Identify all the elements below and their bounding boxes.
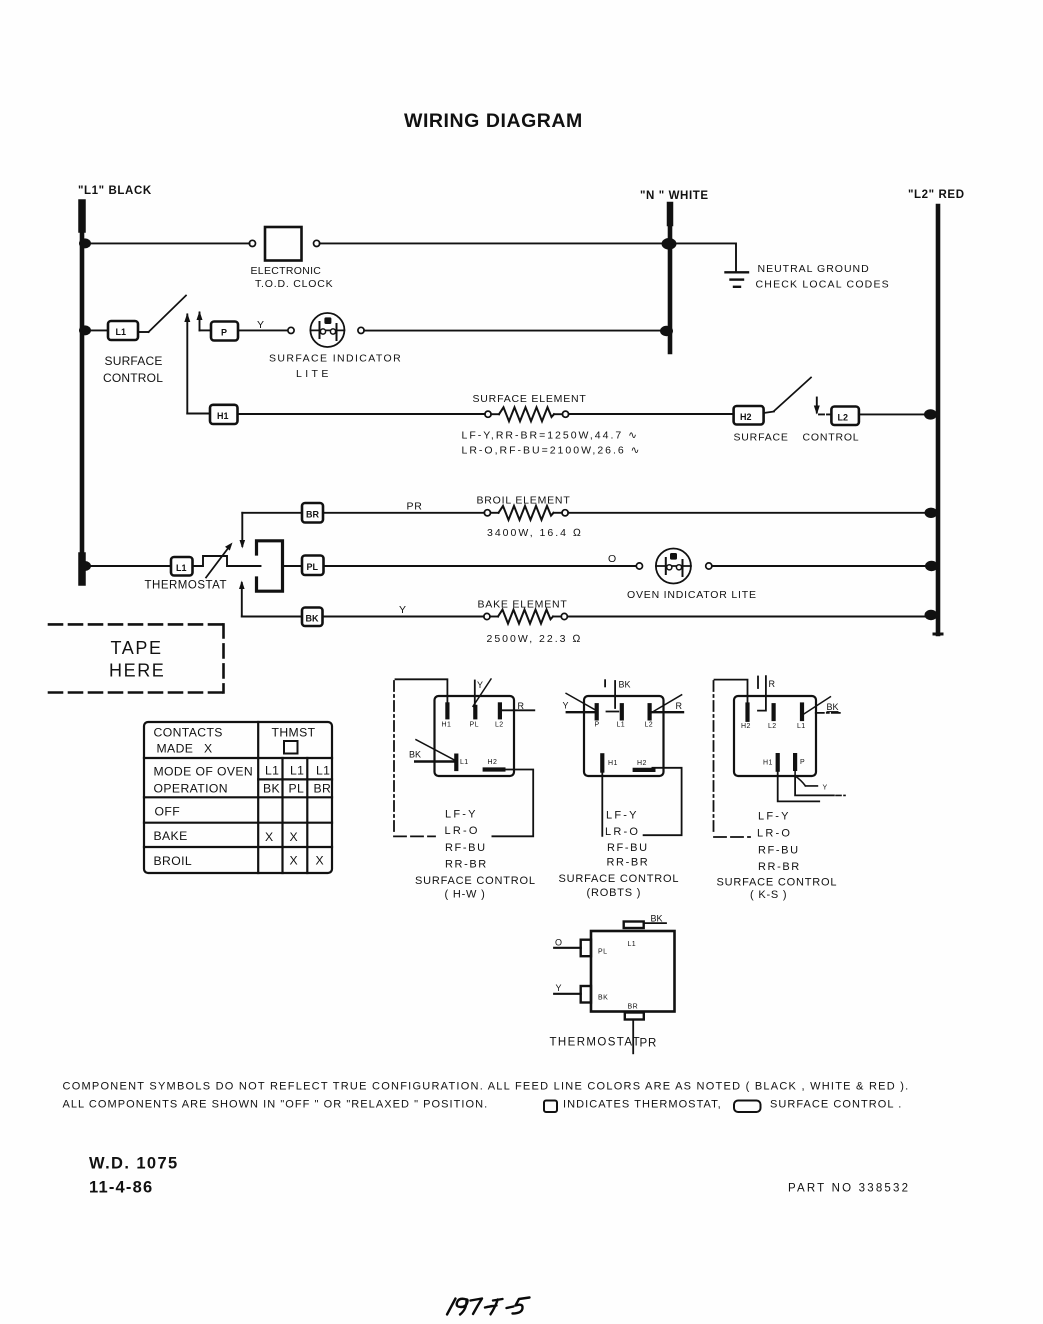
svg-text:THERMOSTAT: THERMOSTAT bbox=[550, 1037, 642, 1049]
junction on L1 bus (clock row) bbox=[79, 238, 91, 248]
table THMST checkbox bbox=[284, 741, 298, 754]
svg-text:LR-O: LR-O bbox=[605, 826, 640, 838]
svg-text:RR-BR: RR-BR bbox=[445, 858, 488, 870]
surface control contact box L1 bbox=[108, 321, 138, 340]
wire PR down from BR pin bbox=[632, 1021, 634, 1054]
wire: P box to lamp bbox=[238, 329, 288, 331]
svg-text:PR: PR bbox=[640, 1038, 658, 1050]
svg-text:THERMOSTAT: THERMOSTAT bbox=[145, 580, 228, 592]
wire BK to L1 pin bbox=[415, 760, 454, 762]
svg-text:R: R bbox=[676, 701, 683, 711]
svg-text:X: X bbox=[316, 854, 325, 868]
wire: broil element to L2 bus bbox=[568, 512, 936, 514]
junction on N bus (clock row) bbox=[662, 238, 677, 250]
bus L2 (red feed) bbox=[934, 206, 942, 634]
svg-text:SURFACE ELEMENT: SURFACE ELEMENT bbox=[473, 393, 587, 405]
wire: H1 box to surface element bbox=[238, 413, 485, 415]
svg-text:P: P bbox=[221, 328, 227, 338]
svg-text:OFF: OFF bbox=[155, 805, 181, 819]
svg-text:MADE: MADE bbox=[157, 742, 194, 756]
svg-text:Y: Y bbox=[563, 701, 569, 711]
contact box BK bbox=[302, 608, 323, 627]
svg-text:H1: H1 bbox=[763, 760, 773, 767]
svg-text:( K-S ): ( K-S ) bbox=[750, 889, 787, 901]
surface control package (H-W) bbox=[394, 679, 536, 901]
svg-text:CONTROL: CONTROL bbox=[803, 432, 860, 444]
svg-text:L1: L1 bbox=[316, 764, 330, 778]
junction on L2 bus (H2 row) bbox=[924, 409, 937, 419]
svg-text:SURFACE CONTROL: SURFACE CONTROL bbox=[559, 873, 680, 885]
svg-text:RF-BU: RF-BU bbox=[445, 842, 487, 854]
svg-text:CONTROL: CONTROL bbox=[103, 371, 163, 385]
svg-text:SURFACE CONTROL: SURFACE CONTROL bbox=[717, 876, 838, 888]
svg-text:"L1" BLACK: "L1" BLACK bbox=[78, 185, 152, 197]
svg-text:LR-O: LR-O bbox=[445, 825, 480, 837]
pin P (ROBTS) bbox=[595, 705, 599, 718]
wire stub and label BK (top) bbox=[644, 922, 666, 924]
package K-S body bbox=[734, 696, 816, 776]
svg-text:SURFACE: SURFACE bbox=[105, 354, 163, 368]
handwritten 197-F-5 bbox=[447, 1298, 530, 1315]
svg-text:RR-BR: RR-BR bbox=[758, 861, 801, 873]
svg-text:TAPE: TAPE bbox=[111, 638, 163, 658]
svg-text:L1: L1 bbox=[176, 563, 187, 573]
thermostat left pin PL bbox=[581, 940, 591, 957]
svg-text:PL: PL bbox=[470, 722, 479, 729]
svg-text:LITE: LITE bbox=[296, 368, 332, 380]
svg-text:O: O bbox=[555, 938, 562, 948]
svg-text:RR-BR: RR-BR bbox=[607, 856, 650, 868]
pin H2 (K-S) bbox=[745, 705, 749, 720]
svg-text:ALL COMPONENTS ARE SHOWN I: ALL COMPONENTS ARE SHOWN IN "OFF " OR "R… bbox=[63, 1099, 489, 1111]
wire: L2 box to L2 bus bbox=[859, 413, 936, 415]
svg-text:LF-Y: LF-Y bbox=[758, 811, 791, 823]
svg-text:L1: L1 bbox=[265, 764, 279, 778]
pin L2 (K-S) bbox=[771, 705, 775, 719]
svg-text:BAKE ELEMENT: BAKE ELEMENT bbox=[478, 598, 568, 610]
svg-text:HERE: HERE bbox=[109, 661, 165, 681]
svg-text:Y: Y bbox=[399, 604, 407, 616]
svg-text:BAKE: BAKE bbox=[154, 829, 188, 843]
svg-text:BK: BK bbox=[598, 995, 608, 1002]
thermostat top pin BK bbox=[624, 922, 644, 929]
svg-text:LR-O: LR-O bbox=[757, 828, 792, 840]
svg-text:BK: BK bbox=[651, 914, 663, 924]
pin H1 (K-S) bbox=[776, 755, 780, 770]
wire: L1 bus to clock bbox=[82, 242, 250, 244]
contact box BR bbox=[302, 503, 323, 523]
svg-text:W.D. 1075: W.D. 1075 bbox=[89, 1155, 179, 1173]
pin L2 (H-W) bbox=[498, 704, 502, 717]
wire: switch into selector bracket bbox=[238, 565, 261, 567]
bus L1 (black feed) bbox=[80, 203, 85, 582]
thermostat symbol in note bbox=[544, 1101, 557, 1113]
pin labels (K-S) bbox=[741, 723, 806, 767]
switch blade (surface control) bbox=[149, 296, 187, 333]
contact arrow to L2 bbox=[814, 398, 832, 415]
svg-text:OVEN INDICATOR LITE: OVEN INDICATOR LITE bbox=[627, 589, 757, 601]
bus N (white feed) bbox=[668, 205, 673, 352]
wire: N bus to neutral ground bbox=[672, 243, 736, 271]
svg-text:L1: L1 bbox=[628, 941, 637, 948]
svg-text:2500W, 22.3 Ω: 2500W, 22.3 Ω bbox=[487, 633, 583, 645]
contact box H1 bbox=[210, 405, 238, 424]
surface indicator lamp terminal right bbox=[358, 327, 364, 333]
wire: BK box to bake element, label Y bbox=[323, 616, 484, 618]
svg-text:L1: L1 bbox=[290, 764, 304, 778]
svg-text:Y: Y bbox=[257, 319, 265, 331]
wire H1 down then right bbox=[778, 770, 820, 802]
svg-text:WIRING DIAGRAM: WIRING DIAGRAM bbox=[404, 110, 583, 132]
wire: BR box to broil element, label PR bbox=[323, 512, 484, 514]
svg-text:X: X bbox=[290, 854, 299, 868]
svg-text:LF-Y,RR-BR=1250W,44.7 ∿: LF-Y,RR-BR=1250W,44.7 ∿ bbox=[462, 429, 639, 441]
junction on N bus (indicator row) bbox=[660, 326, 673, 336]
svg-text:L1: L1 bbox=[617, 722, 626, 729]
svg-text:PL: PL bbox=[289, 782, 305, 796]
contact box P bbox=[211, 322, 238, 341]
wire: PL box to oven lamp, label O bbox=[324, 565, 637, 567]
junction on L1 bus (surface control row) bbox=[79, 325, 91, 335]
svg-text:L1: L1 bbox=[460, 759, 469, 766]
wire Y to P pin bbox=[567, 711, 595, 713]
wire H2 down and left bbox=[644, 768, 682, 835]
svg-text:SURFACE INDICATOR: SURFACE INDICATOR bbox=[269, 353, 402, 365]
switch blade (right surface control) bbox=[764, 412, 774, 414]
wire BK down to L1 pin bbox=[607, 681, 619, 712]
pin H1 (ROBTS) bbox=[600, 755, 604, 770]
tape here box bbox=[49, 624, 224, 692]
pin H2 (H-W) horizontal bbox=[485, 767, 504, 771]
svg-text:H2: H2 bbox=[488, 759, 498, 766]
svg-text:L1: L1 bbox=[797, 723, 806, 730]
svg-text:P: P bbox=[595, 722, 600, 729]
wire R to L2 pin bbox=[652, 711, 683, 713]
pin L1 (ROBTS) bbox=[620, 705, 624, 718]
wire: bake element to L2 bus bbox=[567, 616, 936, 618]
svg-text:PR: PR bbox=[407, 501, 423, 513]
selector bracket (oven switch common) bbox=[257, 541, 283, 591]
clock left terminal bbox=[249, 240, 255, 246]
svg-text:H1: H1 bbox=[442, 722, 452, 729]
svg-text:X: X bbox=[204, 742, 213, 756]
surface control symbol in note bbox=[734, 1101, 761, 1113]
svg-text:R: R bbox=[518, 701, 525, 711]
svg-text:PART NO 338532: PART NO 338532 bbox=[788, 1183, 910, 1195]
svg-text:BROIL: BROIL bbox=[154, 854, 193, 868]
label SURFACE INDICATOR LITE bbox=[269, 353, 402, 381]
svg-text:"L2" RED: "L2" RED bbox=[908, 189, 965, 201]
svg-text:BR: BR bbox=[314, 782, 332, 796]
svg-text:CONTACTS: CONTACTS bbox=[154, 726, 223, 740]
surface control package (K-S) bbox=[714, 676, 846, 901]
junction on L2 bus (oven lamp row) bbox=[925, 561, 938, 571]
oven indicator lamp terminal right bbox=[706, 563, 712, 569]
svg-text:O: O bbox=[608, 553, 617, 565]
svg-text:BK: BK bbox=[827, 702, 839, 712]
wire R from L2 pin bbox=[502, 709, 534, 711]
svg-text:SURFACE CONTROL: SURFACE CONTROL bbox=[415, 875, 536, 887]
svg-text:3400W, 16.4 Ω: 3400W, 16.4 Ω bbox=[487, 527, 583, 539]
selector riser to BK wire bbox=[239, 581, 245, 617]
wire H2 up and around (dash-dot) bbox=[715, 680, 748, 704]
svg-text:COMPONENT SYMBOLS DO NOT R: COMPONENT SYMBOLS DO NOT REFLECT TRUE CO… bbox=[63, 1081, 910, 1093]
svg-text:PL: PL bbox=[598, 949, 607, 956]
svg-text:(ROBTS ): (ROBTS ) bbox=[587, 887, 642, 899]
wire: riser elbow to BK box bbox=[242, 616, 302, 618]
thermostat package bbox=[550, 914, 675, 1054]
wire R down to L2 pin bbox=[758, 676, 766, 711]
wire P down with stubs bbox=[795, 769, 817, 786]
junction on L1 bus (thermostat row) bbox=[79, 561, 91, 571]
wire: surface element to H2 box bbox=[569, 413, 734, 415]
surface element resistor bbox=[485, 407, 569, 421]
svg-text:SURFACE CONTROL .: SURFACE CONTROL . bbox=[770, 1099, 902, 1111]
wire H2 down and left bbox=[492, 770, 533, 837]
wire: oven lamp to L2 bus bbox=[712, 565, 936, 567]
wire O to PL pin bbox=[554, 947, 581, 949]
label TAPE HERE bbox=[109, 638, 165, 681]
label SURFACE CONTROL (right) bbox=[734, 432, 860, 444]
thermostat left pin BK bbox=[581, 986, 591, 1003]
svg-text:L2: L2 bbox=[645, 722, 654, 729]
svg-text:H1: H1 bbox=[217, 411, 229, 421]
thermostat arrow bbox=[206, 543, 233, 578]
table text bbox=[154, 726, 332, 869]
contact box L2 bbox=[831, 407, 859, 426]
svg-text:LF-Y: LF-Y bbox=[606, 810, 639, 822]
wire: L1 bus to thermostat L1 box bbox=[82, 565, 171, 567]
svg-text:Y: Y bbox=[477, 680, 483, 690]
svg-text:INDICATES THERMOSTAT,: INDICATES THERMOSTAT, bbox=[563, 1099, 722, 1111]
svg-text:P: P bbox=[800, 759, 805, 766]
wire Y to PL pin bbox=[474, 681, 476, 706]
svg-text:OPERATION: OPERATION bbox=[154, 782, 228, 796]
thermostat adjustable switch (bump) bbox=[193, 556, 239, 566]
pin PL (H-W) bbox=[473, 707, 477, 717]
blade at L1 (H-W) bbox=[416, 740, 456, 761]
svg-text:BK: BK bbox=[306, 614, 319, 624]
pin L1 (H-W) bbox=[454, 756, 458, 769]
wire: L1 bus to L1 box bbox=[82, 329, 108, 331]
bake element resistor bbox=[484, 610, 568, 624]
pin P (K-S) bbox=[793, 755, 797, 769]
thermostat bottom pin BR bbox=[625, 1013, 644, 1020]
svg-text:SURFACE: SURFACE bbox=[734, 432, 789, 444]
contact box PL bbox=[302, 556, 324, 576]
svg-text:L1: L1 bbox=[116, 327, 127, 337]
svg-text:L2: L2 bbox=[838, 413, 849, 423]
pin L2 (ROBTS) bbox=[647, 705, 651, 718]
svg-text:PL: PL bbox=[307, 562, 319, 572]
svg-text:H2: H2 bbox=[741, 723, 751, 730]
wire: riser to BR box bbox=[242, 512, 302, 514]
blade at PL (H-W) bbox=[473, 679, 491, 706]
package H-W body bbox=[435, 696, 515, 776]
svg-text:Y: Y bbox=[556, 983, 562, 993]
svg-text:X: X bbox=[265, 830, 274, 844]
contact arrow to P bbox=[197, 311, 212, 330]
junction on L2 bus (broil row) bbox=[925, 508, 938, 518]
pin H1 (H-W) bbox=[445, 704, 449, 717]
label ELECTRONIC T.O.D. CLOCK bbox=[251, 265, 334, 290]
svg-text:BR: BR bbox=[306, 510, 319, 520]
svg-text:BK: BK bbox=[409, 750, 421, 760]
svg-text:H1: H1 bbox=[608, 760, 618, 767]
contact arrow to H1 (long riser) bbox=[184, 313, 190, 414]
wire: bracket to PL box bbox=[283, 565, 303, 567]
svg-text:RF-BU: RF-BU bbox=[607, 842, 649, 854]
svg-text:LR-O,RF-BU=2100W,26.6 ∿: LR-O,RF-BU=2100W,26.6 ∿ bbox=[462, 445, 642, 457]
svg-text:LF-Y: LF-Y bbox=[445, 809, 478, 821]
contact box H2 bbox=[734, 406, 764, 425]
svg-text:BK: BK bbox=[619, 680, 631, 690]
svg-text:BR: BR bbox=[628, 1004, 639, 1011]
package ROBTS body bbox=[584, 696, 664, 776]
pin L1 (K-S) bbox=[800, 705, 804, 720]
surface indicator lamp bbox=[310, 313, 344, 347]
svg-text:NEUTRAL GROUND: NEUTRAL GROUND bbox=[758, 263, 870, 275]
wire Y to BK pin bbox=[554, 993, 581, 995]
pin labels (H-W) bbox=[442, 722, 504, 767]
clock right terminal bbox=[314, 240, 320, 246]
surface control package (ROBTS) bbox=[559, 680, 684, 900]
svg-text:RF-BU: RF-BU bbox=[758, 845, 800, 857]
contacts table bbox=[144, 722, 332, 873]
svg-text:CHECK LOCAL CODES: CHECK LOCAL CODES bbox=[756, 278, 890, 290]
svg-text:T.O.D. CLOCK: T.O.D. CLOCK bbox=[255, 278, 333, 290]
wire BK dash-dot to L1 pin bbox=[816, 712, 842, 714]
svg-text:X: X bbox=[290, 830, 299, 844]
wire stub from L1 box bbox=[138, 331, 149, 333]
svg-text:BK: BK bbox=[263, 782, 280, 796]
svg-text:MODE OF OVEN: MODE OF OVEN bbox=[154, 765, 254, 779]
svg-text:R: R bbox=[769, 679, 776, 689]
oven indicator lamp terminal left bbox=[636, 563, 642, 569]
wire: riser to H1 box bbox=[187, 413, 210, 415]
electronic T.O.D. clock box bbox=[265, 227, 302, 261]
blade at P (ROBTS) bbox=[566, 693, 596, 710]
wire: lamp to N bus bbox=[364, 330, 668, 332]
label NEUTRAL GROUND / CHECK LOCAL CODES bbox=[756, 263, 890, 290]
selector riser to BR wire bbox=[240, 513, 246, 549]
thermostat body bbox=[591, 931, 675, 1012]
wire H1 down bbox=[601, 771, 603, 836]
svg-text:11-4-86: 11-4-86 bbox=[89, 1179, 153, 1197]
svg-text:Y: Y bbox=[823, 785, 828, 792]
svg-text:"N " WHITE: "N " WHITE bbox=[640, 190, 709, 202]
package K-S harness text bbox=[717, 811, 838, 902]
svg-text:L2: L2 bbox=[495, 722, 504, 729]
svg-text:BROIL ELEMENT: BROIL ELEMENT bbox=[477, 494, 571, 506]
oven indicator lamp bbox=[656, 549, 691, 584]
blade at L2 (ROBTS) bbox=[651, 695, 682, 713]
svg-text:H2: H2 bbox=[637, 760, 647, 767]
thermostat contact box L1 bbox=[171, 557, 193, 576]
svg-text:ELECTRONIC: ELECTRONIC bbox=[251, 265, 322, 277]
broil element resistor bbox=[484, 506, 568, 520]
blade at L1 (K-S) bbox=[804, 697, 830, 714]
pin H2 (ROBTS) horizontal bbox=[635, 768, 654, 772]
svg-text:THMST: THMST bbox=[272, 726, 316, 740]
package ROBTS harness text bbox=[559, 810, 680, 900]
pin labels (ROBTS) bbox=[595, 722, 654, 768]
svg-text:( H-W ): ( H-W ) bbox=[445, 889, 486, 901]
package H-W harness text bbox=[415, 809, 536, 901]
wire H1 up and around (dash-dot) bbox=[396, 679, 448, 704]
svg-text:L2: L2 bbox=[768, 723, 777, 730]
label SURFACE CONTROL (left) bbox=[103, 354, 163, 385]
junction on L2 bus (bake row) bbox=[925, 610, 938, 620]
svg-text:H2: H2 bbox=[740, 412, 752, 422]
ground symbol bbox=[726, 272, 749, 287]
wire: clock to N bus bbox=[320, 242, 668, 244]
surface indicator lamp terminal left bbox=[288, 327, 294, 333]
